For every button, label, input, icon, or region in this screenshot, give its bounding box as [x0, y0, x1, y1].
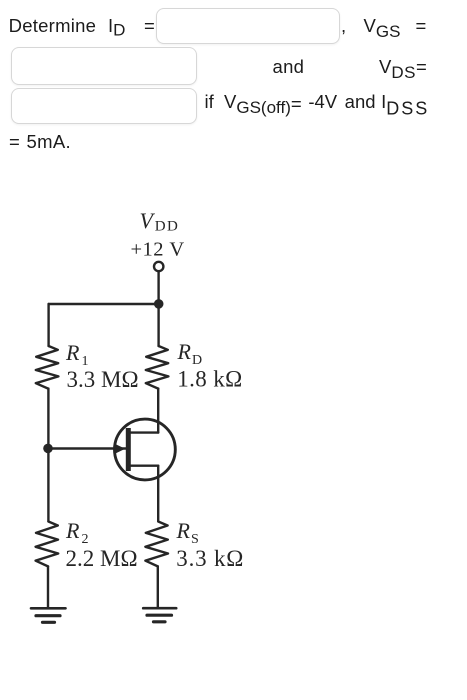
node top junction	[154, 299, 164, 309]
wire left branch down to R1	[47, 304, 49, 346]
svg-text:2.2 MΩ: 2.2 MΩ	[66, 546, 138, 571]
gate arrow	[114, 444, 125, 454]
line 2: VDS=	[379, 58, 427, 83]
line 1: Determine	[9, 17, 97, 36]
line 4: = 5mA.	[9, 133, 71, 152]
wire R1 to gate node	[47, 389, 49, 449]
label R1 3.3 Mohm	[65, 340, 139, 392]
svg-text:1.8 kΩ: 1.8 kΩ	[177, 367, 243, 392]
line 1: equals	[144, 17, 155, 36]
svg-text:+12 V: +12 V	[131, 239, 185, 261]
svg-text:R: R	[65, 340, 80, 365]
wire top horizontal	[49, 303, 159, 305]
wire gate node to R2	[47, 449, 49, 522]
wire RS to right ground	[157, 566, 159, 607]
line 1: ID	[108, 17, 125, 40]
VDD terminal circle	[154, 262, 163, 271]
line 1: equals 2	[416, 17, 427, 36]
svg-text:3.3 kΩ: 3.3 kΩ	[176, 546, 244, 571]
resistor R1	[36, 346, 59, 389]
svg-text:R: R	[65, 518, 80, 543]
label R2 2.2 Mohm	[65, 518, 138, 571]
label RD 1.8 kohm	[177, 339, 243, 392]
transistor Q1 body circle	[114, 419, 175, 480]
wire R2 to left ground	[47, 566, 49, 607]
wire right branch to RD	[157, 304, 159, 346]
ground left	[31, 608, 66, 622]
svg-text:V: V	[140, 208, 156, 233]
transistor source lead	[131, 465, 158, 467]
input box 1	[156, 8, 340, 44]
input box 2	[11, 47, 197, 85]
wire source down to RS	[157, 466, 159, 521]
line 1: VGS	[364, 17, 401, 42]
node gate junction	[43, 444, 53, 454]
wire gate from node to transistor	[48, 447, 125, 449]
svg-text:R: R	[176, 518, 191, 543]
wire RD to transistor drain	[157, 389, 159, 433]
resistor R2	[36, 522, 59, 567]
svg-text:3.3 MΩ: 3.3 MΩ	[67, 367, 139, 392]
wire VDD terminal to top node	[157, 272, 159, 304]
svg-text:2: 2	[82, 532, 89, 547]
svg-text:S: S	[191, 532, 199, 547]
line 2: and	[273, 58, 305, 77]
label RS 3.3 kohm	[176, 518, 245, 571]
line 1: comma	[341, 17, 346, 36]
svg-text:R: R	[177, 339, 192, 364]
resistor RD	[146, 346, 169, 389]
line 3: if VGS(off)= -4V and IDSS	[205, 93, 430, 118]
svg-text:DD: DD	[155, 219, 179, 235]
node VDD label	[131, 208, 185, 261]
ground right	[143, 608, 176, 622]
transistor drain lead	[131, 431, 158, 433]
resistor RS	[145, 522, 168, 567]
input box 3	[11, 88, 197, 124]
transistor gate bar	[126, 428, 131, 471]
